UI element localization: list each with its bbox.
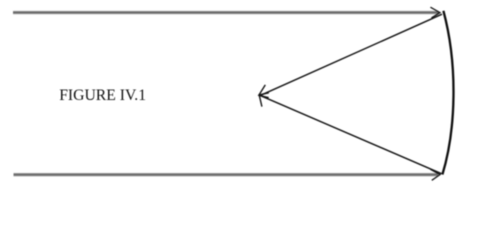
reflected ray (lower diagonal) bbox=[259, 95, 441, 174]
incoming ray (bottom horizontal line) bbox=[14, 174, 439, 176]
incoming ray (bottom horizontal line) halo bbox=[14, 173, 439, 177]
arrowhead of bottom incoming ray bbox=[430, 169, 440, 180]
arrowhead of lower reflected ray at focus bbox=[259, 93, 269, 107]
incoming ray (top horizontal line) halo bbox=[13, 11, 439, 15]
reflected ray (upper diagonal) bbox=[260, 14, 443, 96]
svg-text:FIGURE IV.1: FIGURE IV.1 bbox=[59, 87, 146, 104]
incoming ray (top horizontal line) bbox=[13, 12, 439, 14]
mirror arc bbox=[442, 11, 453, 175]
arrowhead of top incoming ray bbox=[430, 7, 440, 18]
arrowhead of upper reflected ray at focus bbox=[259, 85, 269, 98]
